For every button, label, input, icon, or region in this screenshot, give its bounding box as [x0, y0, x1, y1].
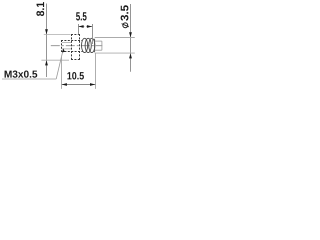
text M3x0.5 [5, 70, 38, 77]
text 8.1 [36, 2, 44, 16]
dim 8.1 arrows [45, 29, 48, 34]
dim 8.1 ext lines [44, 34, 71, 36]
dim 5.5 arrows [78, 25, 83, 28]
dim 10.5 ext lines [61, 57, 63, 89]
leader M3x0.5 underline [2, 78, 56, 80]
dim 5.5 ext lines [78, 24, 80, 34]
dia3.5 arrows [129, 32, 132, 37]
dim 5.5 line [78, 26, 84, 28]
text 5.5 [76, 12, 87, 20]
text dia3.5 [121, 5, 129, 27]
centerline [51, 45, 103, 47]
barbs [82, 38, 95, 52]
text 10.5 [67, 72, 84, 80]
threaded stub M3 [61, 40, 83, 52]
thread minor lines [62, 42, 72, 44]
leader M3x0.5 arrowhead [62, 48, 65, 52]
tube end [95, 41, 102, 50]
dim 8.1 vertical line [46, 4, 48, 78]
dim 10.5 arrows [62, 83, 67, 86]
leader M3x0.5 diagonal [56, 49, 63, 79]
dim dia 3.5 vertical line [130, 4, 132, 72]
dia3.5 ext lines [95, 37, 135, 39]
dim 10.5 line [62, 84, 96, 86]
hex body [71, 34, 80, 60]
